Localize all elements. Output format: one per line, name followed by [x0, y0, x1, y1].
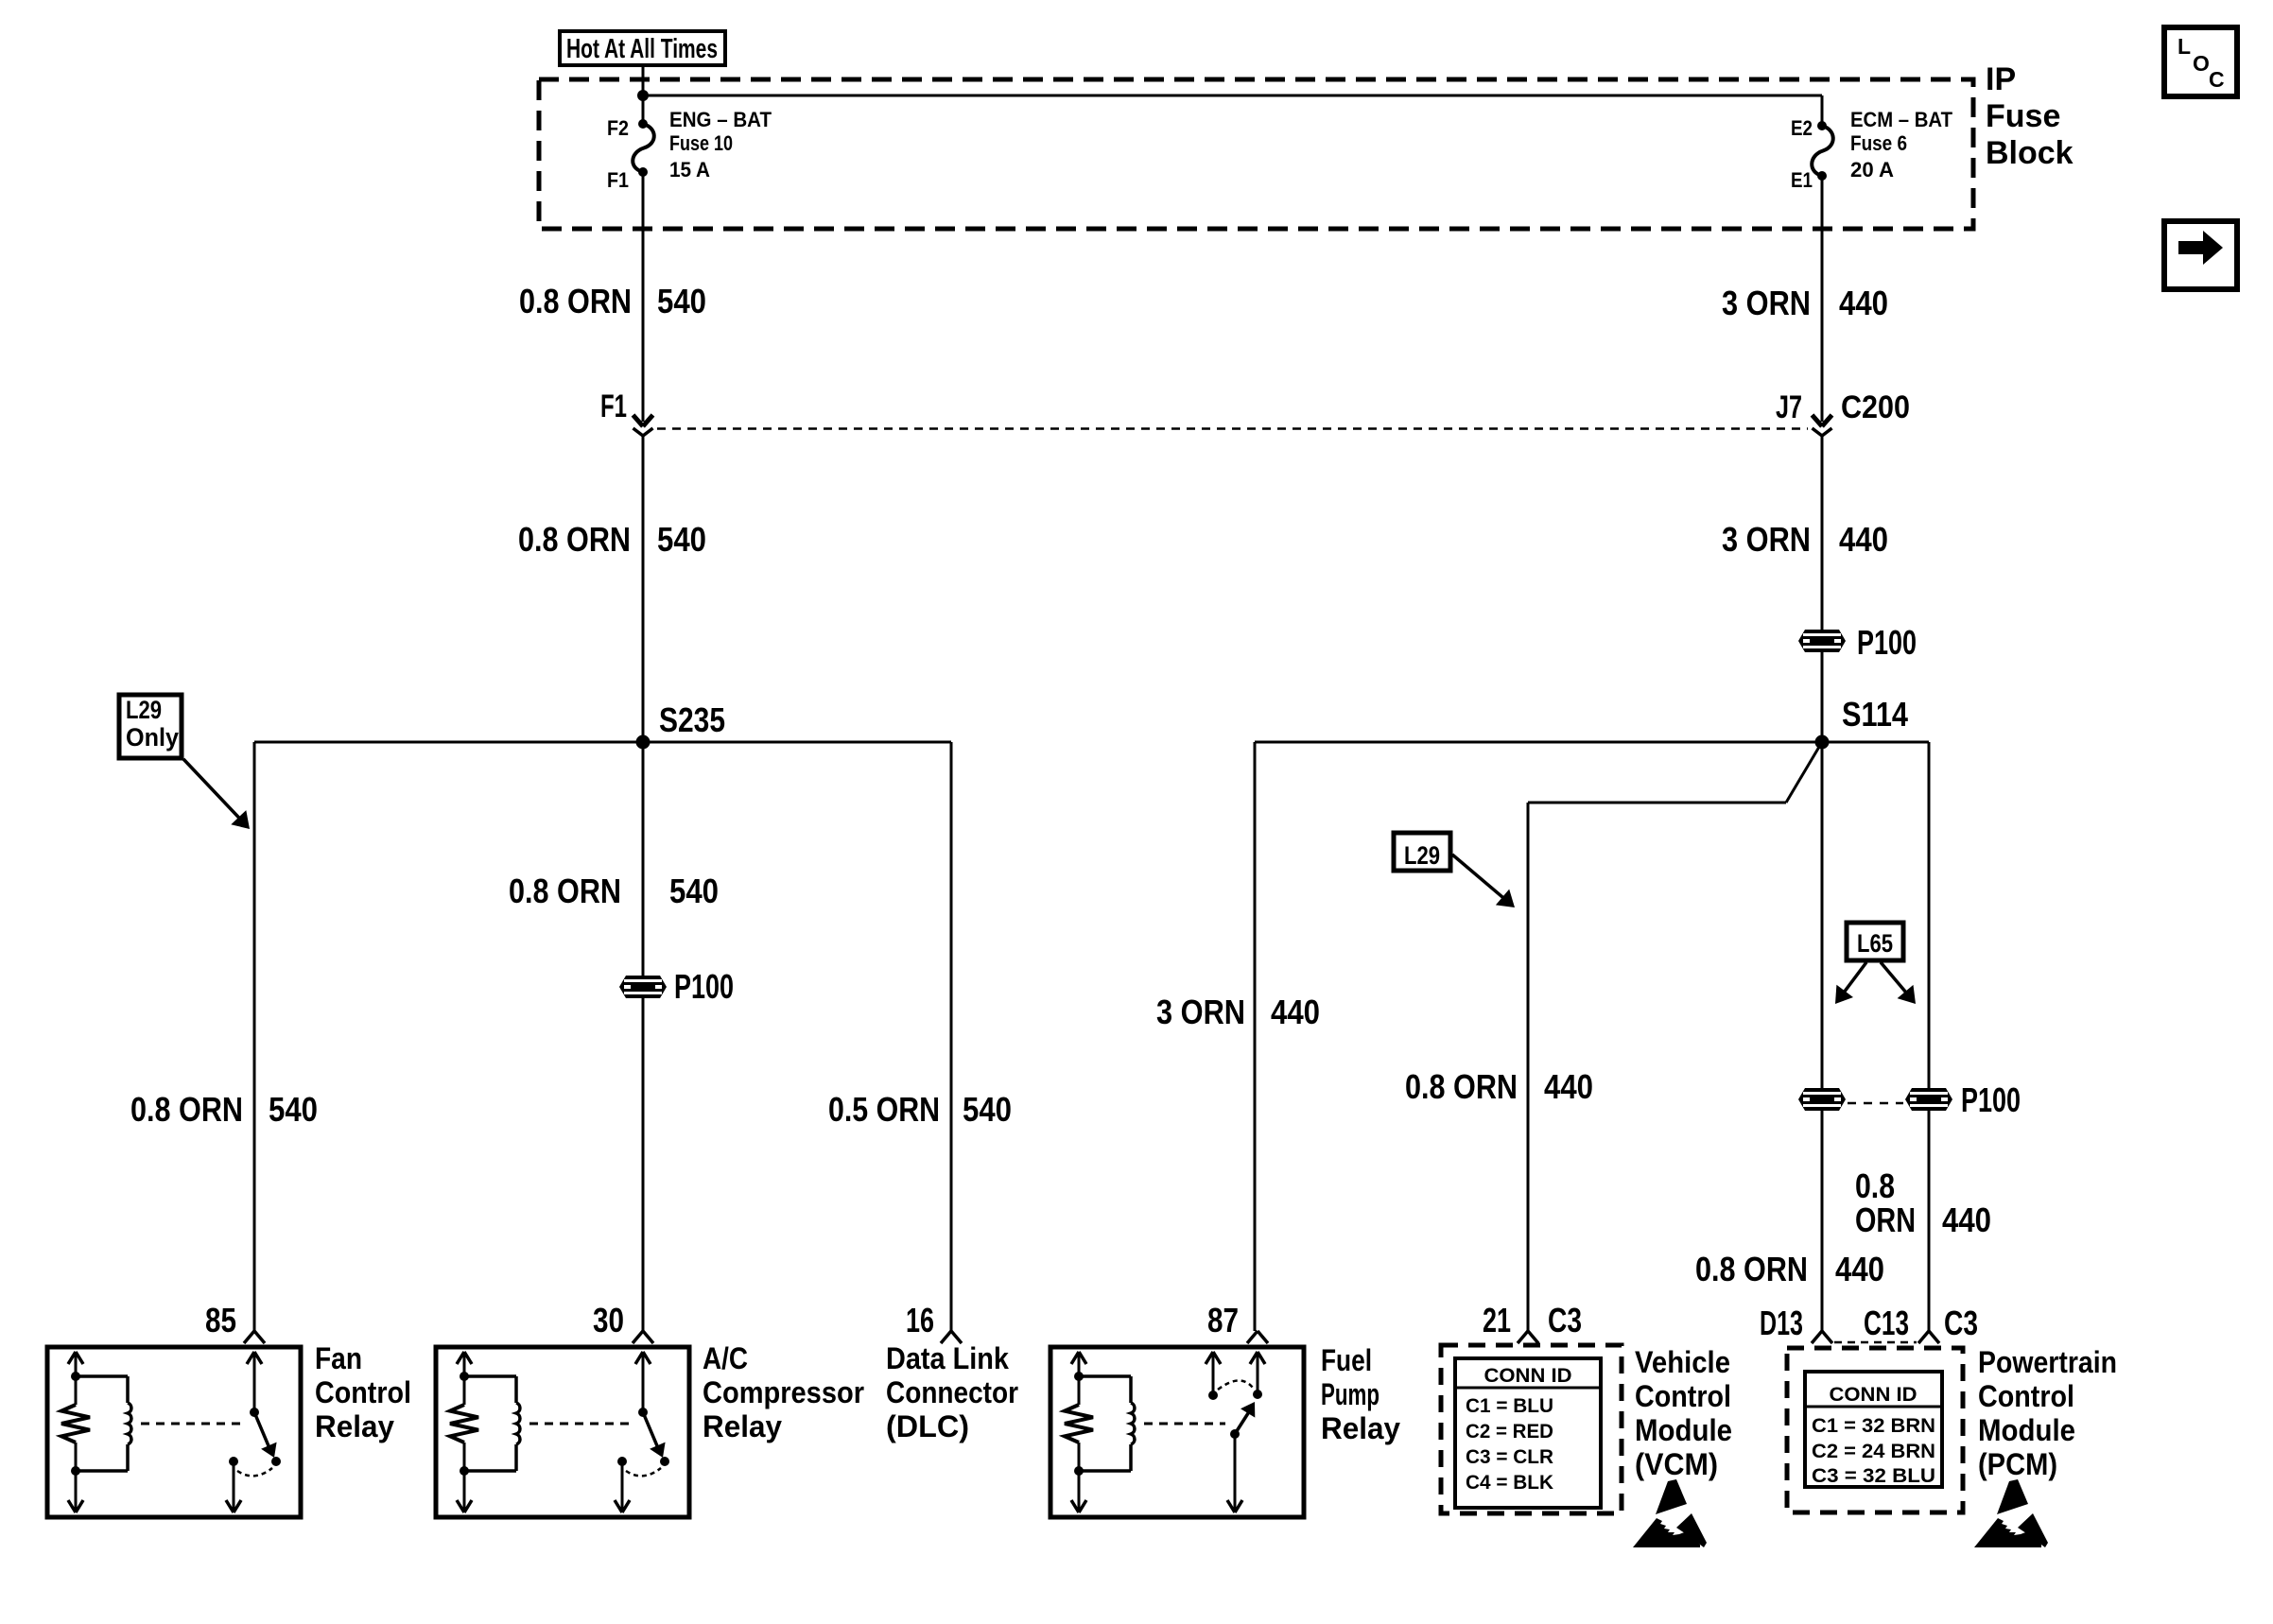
- svg-text:Vehicle: Vehicle: [1635, 1345, 1730, 1379]
- wire: S114 down to PCM D13: [1821, 742, 1824, 1088]
- svg-text:ORN: ORN: [1855, 1201, 1916, 1239]
- terminal F2: [607, 116, 648, 140]
- label A/C Compressor Relay: [703, 1341, 864, 1443]
- svg-text:Compressor: Compressor: [703, 1375, 864, 1409]
- svg-text:CONN ID: CONN ID: [1830, 1384, 1917, 1406]
- svg-text:440: 440: [1271, 993, 1320, 1031]
- svg-text:540: 540: [657, 282, 706, 320]
- svg-text:3 ORN: 3 ORN: [1722, 520, 1811, 559]
- fuse ENG-BAT Fuse 10 15A: [633, 108, 772, 181]
- svg-text:0.8 ORN: 0.8 ORN: [1405, 1067, 1518, 1106]
- svg-text:C: C: [2209, 67, 2225, 92]
- IP Fuse Block (dashed box): [539, 79, 1973, 229]
- label wire 0.8 ORN 540 (A/C branch): [509, 872, 719, 910]
- svg-text:L65: L65: [1857, 929, 1893, 958]
- pin D13 C13 C3 terminals (PCM): [1760, 1304, 1978, 1343]
- connector P100 (ECM feed): [1798, 623, 1917, 662]
- svg-text:C13: C13: [1864, 1304, 1909, 1342]
- svg-text:Fuse: Fuse: [1986, 98, 2060, 134]
- callout arrow L29 Only: [183, 759, 250, 829]
- wire: P100 to A/C relay: [642, 998, 645, 1331]
- label Fuel Pump Relay: [1321, 1343, 1400, 1445]
- svg-text:Fan: Fan: [315, 1341, 362, 1375]
- label Vehicle Control Module (VCM): [1635, 1345, 1732, 1481]
- svg-text:30: 30: [593, 1301, 624, 1339]
- svg-text:C4 = BLK: C4 = BLK: [1466, 1472, 1553, 1494]
- callout L29 Only: [119, 695, 182, 758]
- wire: 0.8 ORN 540 from fuse 10: [642, 172, 645, 422]
- wire: S235 branch bus: [254, 741, 951, 744]
- dashed connector line C200: [657, 427, 1808, 430]
- label wire 3 ORN 440 (middle): [1722, 520, 1888, 559]
- splice S114: [1815, 695, 1909, 750]
- wire: branch down to DLC: [950, 742, 953, 1331]
- svg-text:440: 440: [1835, 1250, 1884, 1288]
- svg-text:P100: P100: [1857, 623, 1917, 662]
- svg-text:A/C: A/C: [703, 1341, 748, 1375]
- svg-text:F2: F2: [607, 116, 629, 140]
- svg-text:C3 = CLR: C3 = CLR: [1466, 1446, 1553, 1468]
- svg-text:Fuse 10: Fuse 10: [669, 131, 733, 155]
- connector P100 (PCM C3): [1905, 1080, 2021, 1119]
- label box: Hot At All Times: [560, 31, 725, 65]
- label wire 0.8 ORN 540 (upper): [519, 282, 706, 320]
- wire: S235 down to A/C relay (upper): [642, 742, 645, 976]
- relay: Fuel Pump Relay: [1050, 1347, 1304, 1517]
- wire: 0.8 ORN 540 to S235: [642, 436, 645, 742]
- svg-text:E2: E2: [1791, 116, 1813, 140]
- svg-text:0.8 ORN: 0.8 ORN: [518, 520, 631, 559]
- svg-text:C2 = RED: C2 = RED: [1466, 1421, 1553, 1443]
- LOC reference box: [2164, 27, 2237, 96]
- svg-text:E1: E1: [1791, 168, 1813, 192]
- in-line connector F1: [600, 389, 653, 436]
- svg-text:(VCM): (VCM): [1635, 1447, 1718, 1481]
- svg-text:0.8 ORN: 0.8 ORN: [519, 282, 632, 320]
- svg-text:ECM – BAT: ECM – BAT: [1850, 108, 1953, 131]
- svg-text:Powertrain: Powertrain: [1978, 1345, 2117, 1379]
- svg-text:Fuel: Fuel: [1321, 1343, 1372, 1377]
- wire: bus drop to fuse 6: [1821, 95, 1824, 126]
- label Data Link Connector (DLC): [886, 1341, 1018, 1443]
- svg-text:15 A: 15 A: [669, 158, 710, 181]
- pin 16 terminal (DLC): [906, 1301, 962, 1343]
- svg-text:540: 540: [657, 520, 706, 559]
- svg-text:L29: L29: [126, 696, 162, 724]
- svg-text:CONN ID: CONN ID: [1484, 1365, 1572, 1387]
- svg-text:ENG – BAT: ENG – BAT: [669, 108, 772, 131]
- wire: 3 ORN 440 from fuse 6: [1821, 176, 1824, 422]
- svg-text:Relay: Relay: [315, 1409, 394, 1443]
- callout L29: [1394, 833, 1450, 871]
- svg-text:Control: Control: [315, 1375, 411, 1409]
- svg-text:Block: Block: [1986, 135, 2073, 171]
- wire: junction to F2: [642, 95, 645, 124]
- pin 85 terminal: [205, 1301, 265, 1343]
- callout L65: [1847, 923, 1903, 960]
- svg-text:L29: L29: [1404, 841, 1440, 870]
- svg-text:C3: C3: [1944, 1304, 1978, 1342]
- fuse ECM-BAT Fuse 6 20A: [1812, 108, 1952, 181]
- terminal E1: [1791, 168, 1827, 192]
- svg-text:Control: Control: [1978, 1379, 2074, 1413]
- label wire 3 ORN 440 (fuel pump): [1156, 993, 1320, 1031]
- svg-text:C200: C200: [1841, 389, 1910, 425]
- svg-text:IP: IP: [1986, 61, 2016, 97]
- svg-text:540: 540: [269, 1090, 318, 1129]
- svg-text:3 ORN: 3 ORN: [1156, 993, 1245, 1031]
- svg-text:440: 440: [1839, 520, 1888, 559]
- svg-text:Fuse 6: Fuse 6: [1850, 131, 1907, 155]
- svg-text:Data Link: Data Link: [886, 1341, 1009, 1375]
- VCM CONN ID table: [1455, 1358, 1601, 1508]
- connector P100 (PCM D13): [1798, 1088, 1846, 1111]
- svg-text:440: 440: [1839, 284, 1888, 322]
- node: fuse block feed junction: [637, 90, 649, 101]
- dashed link between P100 grommets: [1848, 1102, 1903, 1105]
- label wire 0.8 ORN 440 (C3): [1855, 1166, 1991, 1239]
- in-line connector J7 C200: [1776, 389, 1910, 436]
- svg-text:540: 540: [669, 872, 719, 910]
- label wire 0.8 ORN 540 (fan branch): [130, 1090, 318, 1129]
- label wire 0.8 ORN 540 (middle): [518, 520, 706, 559]
- svg-text:440: 440: [1544, 1067, 1593, 1106]
- label wire 3 ORN 440 (upper): [1722, 284, 1888, 322]
- wire: 3 ORN 440 to P100: [1821, 436, 1824, 630]
- module VCM (dashed box): [1441, 1345, 1622, 1513]
- label wire 0.5 ORN 540 (DLC): [828, 1090, 1012, 1129]
- ESD warning symbol (PCM): [1974, 1479, 2048, 1547]
- ESD warning symbol (VCM): [1633, 1479, 1707, 1547]
- label Fan Control Relay: [315, 1341, 411, 1443]
- svg-text:C1 = BLU: C1 = BLU: [1466, 1395, 1553, 1417]
- svg-text:O: O: [2193, 51, 2210, 76]
- svg-text:D13: D13: [1760, 1304, 1803, 1342]
- svg-text:S235: S235: [659, 700, 725, 739]
- svg-text:P100: P100: [674, 967, 734, 1006]
- callout arrow L29: [1452, 855, 1515, 907]
- terminal F1: [607, 167, 648, 192]
- svg-text:S114: S114: [1842, 695, 1908, 734]
- wire: S114 branch to fuel pump relay: [1255, 742, 1822, 1331]
- wire: battery feed into fuse block: [642, 65, 645, 95]
- svg-text:Relay: Relay: [1321, 1411, 1400, 1445]
- pin 21 C3 terminal (VCM): [1483, 1301, 1582, 1343]
- relay: A/C Compressor Relay: [436, 1347, 689, 1517]
- svg-text:Only: Only: [126, 723, 179, 752]
- svg-text:C1 = 32 BRN: C1 = 32 BRN: [1812, 1415, 1935, 1437]
- wire: P100 to PCM D13: [1821, 1111, 1824, 1331]
- svg-text:F1: F1: [607, 168, 629, 192]
- svg-text:20 A: 20 A: [1850, 158, 1894, 181]
- wire: fuse block bus: [643, 95, 1822, 97]
- page-continue arrow box: [2164, 221, 2237, 289]
- svg-text:Module: Module: [1978, 1413, 2075, 1447]
- wire: P100 to PCM C3: [1928, 1111, 1931, 1331]
- svg-text:16: 16: [906, 1301, 934, 1339]
- svg-text:Hot At All Times: Hot At All Times: [566, 34, 718, 64]
- svg-text:P100: P100: [1961, 1080, 2021, 1119]
- svg-text:Relay: Relay: [703, 1409, 782, 1443]
- svg-text:Control: Control: [1635, 1379, 1731, 1413]
- PCM CONN ID table: [1805, 1372, 1942, 1487]
- svg-text:(DLC): (DLC): [886, 1409, 969, 1443]
- svg-text:0.8: 0.8: [1855, 1166, 1895, 1205]
- svg-text:C3 = 32 BLU: C3 = 32 BLU: [1812, 1465, 1935, 1487]
- callout arrow L65 right: [1881, 962, 1916, 1004]
- wire: S114 branch to PCM C3: [1822, 742, 1929, 1088]
- svg-text:85: 85: [205, 1301, 236, 1339]
- svg-text:87: 87: [1207, 1301, 1239, 1339]
- label wire 0.8 ORN 440 (D13): [1695, 1250, 1884, 1288]
- svg-text:0.8 ORN: 0.8 ORN: [509, 872, 621, 910]
- svg-text:C2 = 24 BRN: C2 = 24 BRN: [1812, 1441, 1935, 1462]
- label Powertrain Control Module (PCM): [1978, 1345, 2117, 1481]
- svg-text:540: 540: [963, 1090, 1012, 1129]
- label IP Fuse Block: [1986, 61, 2073, 171]
- svg-text:440: 440: [1942, 1201, 1991, 1239]
- pin 87 terminal: [1207, 1301, 1268, 1343]
- svg-text:Connector: Connector: [886, 1375, 1018, 1409]
- label wire 0.8 ORN 440 (VCM): [1405, 1067, 1593, 1106]
- relay: Fan Control Relay: [47, 1347, 301, 1517]
- svg-text:J7: J7: [1776, 389, 1802, 425]
- svg-text:L: L: [2178, 34, 2191, 59]
- svg-text:21: 21: [1483, 1301, 1511, 1339]
- module PCM (dashed box): [1787, 1348, 1963, 1512]
- terminal E2: [1791, 116, 1827, 140]
- callout arrow L65 left: [1835, 962, 1866, 1004]
- connector P100 (A/C branch): [619, 967, 734, 1006]
- svg-text:3 ORN: 3 ORN: [1722, 284, 1811, 322]
- svg-text:0.8 ORN: 0.8 ORN: [1695, 1250, 1808, 1288]
- wire: P100 to S114: [1821, 652, 1824, 742]
- svg-text:0.5 ORN: 0.5 ORN: [828, 1090, 940, 1129]
- svg-text:(PCM): (PCM): [1978, 1447, 2057, 1481]
- svg-text:Pump: Pump: [1321, 1377, 1379, 1411]
- svg-text:C3: C3: [1548, 1301, 1582, 1339]
- wire: S114 jog to VCM: [1528, 742, 1822, 1331]
- svg-text:0.8 ORN: 0.8 ORN: [130, 1090, 243, 1129]
- svg-text:Module: Module: [1635, 1413, 1732, 1447]
- splice S235: [636, 700, 726, 750]
- pin 30 terminal: [593, 1301, 653, 1343]
- svg-text:F1: F1: [600, 389, 627, 424]
- wire: branch down to fan relay: [253, 742, 256, 1331]
